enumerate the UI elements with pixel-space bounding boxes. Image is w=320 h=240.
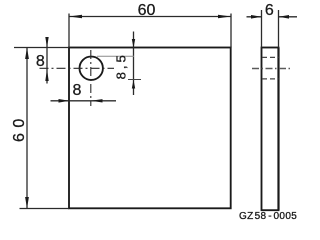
svg-text:60: 60 xyxy=(138,2,156,19)
svg-text:6: 6 xyxy=(265,2,274,19)
svg-text:GZ58-0005: GZ58-0005 xyxy=(239,211,297,222)
svg-text:8,5: 8,5 xyxy=(113,52,128,79)
svg-text:8: 8 xyxy=(36,53,45,70)
svg-text:60: 60 xyxy=(11,113,28,142)
svg-text:8: 8 xyxy=(73,82,82,99)
